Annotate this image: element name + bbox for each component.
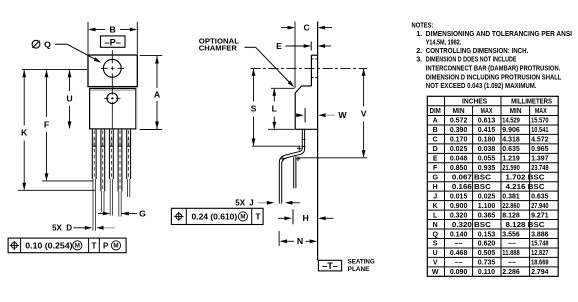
svg-text:––: –– bbox=[455, 241, 463, 248]
feature control frame 0.24 bbox=[171, 208, 263, 224]
dimension V bbox=[363, 69, 365, 107]
front view molded body bbox=[90, 89, 136, 129]
svg-text:M: M bbox=[113, 243, 118, 250]
svg-text:L: L bbox=[272, 103, 278, 113]
svg-text:Q: Q bbox=[44, 39, 51, 49]
svg-text:11.888: 11.888 bbox=[502, 250, 520, 257]
svg-text:0.635: 0.635 bbox=[531, 193, 549, 200]
datum P box bbox=[101, 36, 126, 47]
svg-text:MAX: MAX bbox=[481, 108, 493, 115]
svg-text:A: A bbox=[154, 90, 161, 100]
seating plane datum T bbox=[318, 260, 341, 271]
straight lead back row bbox=[293, 157, 295, 188]
svg-text:9.271: 9.271 bbox=[531, 212, 549, 219]
svg-text:0.468: 0.468 bbox=[450, 250, 468, 257]
svg-text:0.965: 0.965 bbox=[531, 146, 549, 153]
hidden hole lines in tab bbox=[311, 58, 317, 60]
svg-text:T: T bbox=[92, 241, 97, 250]
dimension K bbox=[23, 70, 25, 125]
svg-text:M: M bbox=[75, 243, 80, 250]
svg-text:C: C bbox=[303, 22, 310, 32]
extension line hole center bbox=[22, 69, 87, 71]
dimension N bbox=[278, 231, 280, 246]
svg-text:0.320 BSC: 0.320 BSC bbox=[452, 222, 491, 229]
lead 5 bbox=[126, 138, 131, 146]
dimension B bbox=[87, 22, 89, 54]
front view body tab bbox=[88, 55, 137, 87]
svg-text:0.067 BSC: 0.067 BSC bbox=[452, 174, 491, 181]
svg-text:0.572: 0.572 bbox=[450, 118, 468, 125]
svg-text:F: F bbox=[44, 119, 49, 129]
svg-text:K: K bbox=[433, 203, 438, 210]
svg-text:MAX: MAX bbox=[535, 108, 547, 115]
svg-text:0.735: 0.735 bbox=[478, 260, 496, 267]
svg-text:0.900: 0.900 bbox=[450, 203, 468, 210]
svg-text:B: B bbox=[109, 24, 115, 34]
svg-text:0.24 (0.610): 0.24 (0.610) bbox=[192, 213, 238, 222]
svg-text:0.025: 0.025 bbox=[450, 146, 468, 153]
svg-text:V: V bbox=[433, 260, 438, 267]
svg-text:K: K bbox=[21, 128, 28, 138]
svg-text:P: P bbox=[103, 241, 109, 250]
dimension C bbox=[294, 22, 296, 89]
svg-text:0.038: 0.038 bbox=[478, 146, 496, 153]
svg-text:E: E bbox=[433, 156, 438, 163]
dimension H bbox=[278, 217, 285, 219]
svg-text:M: M bbox=[240, 214, 245, 221]
svg-text:U: U bbox=[433, 250, 438, 257]
svg-text:3.556: 3.556 bbox=[502, 231, 520, 238]
feature control frame 0.10 bbox=[8, 238, 126, 253]
svg-text:23.749: 23.749 bbox=[531, 165, 549, 172]
svg-text:9.906: 9.906 bbox=[502, 127, 520, 134]
svg-text:0.110: 0.110 bbox=[478, 269, 495, 276]
svg-text:–P–: –P– bbox=[105, 37, 121, 47]
svg-text:0.613: 0.613 bbox=[478, 118, 496, 125]
svg-text:0.850: 0.850 bbox=[450, 165, 468, 172]
svg-text:L: L bbox=[433, 212, 438, 219]
svg-text:MIN: MIN bbox=[453, 108, 465, 115]
svg-text:T: T bbox=[256, 213, 261, 222]
hole diameter Q callout bbox=[32, 40, 40, 48]
svg-text:8.128: 8.128 bbox=[502, 212, 520, 219]
svg-text:0.025: 0.025 bbox=[478, 193, 496, 200]
dimension G bbox=[98, 213, 104, 215]
svg-text:H: H bbox=[433, 184, 438, 191]
svg-text:0.381: 0.381 bbox=[502, 193, 520, 200]
lead 4 bbox=[117, 138, 122, 146]
centerline dash-dot bbox=[251, 67, 368, 69]
svg-text:27.940: 27.940 bbox=[531, 203, 549, 210]
svg-text:MIN: MIN bbox=[510, 108, 522, 115]
svg-text:INCHES: INCHES bbox=[462, 99, 487, 106]
svg-text:3.: 3. bbox=[416, 55, 422, 64]
svg-text:22.860: 22.860 bbox=[502, 203, 520, 210]
svg-text:DIM: DIM bbox=[430, 108, 441, 115]
svg-text:E: E bbox=[276, 41, 282, 51]
svg-text:0.090: 0.090 bbox=[450, 269, 468, 276]
svg-text:18.669: 18.669 bbox=[531, 260, 549, 267]
dimension L bbox=[271, 87, 295, 89]
svg-text:5X: 5X bbox=[235, 199, 245, 208]
svg-text:H: H bbox=[303, 213, 309, 223]
lead 3 bbox=[109, 138, 114, 146]
svg-text:U: U bbox=[66, 93, 72, 103]
svg-text:2.794: 2.794 bbox=[531, 269, 549, 276]
svg-text:DIMENSION D INCLUDING PROTRUSI: DIMENSION D INCLUDING PROTRUSION SHALL bbox=[426, 72, 562, 81]
lead 2 bbox=[100, 138, 105, 146]
svg-text:0.390: 0.390 bbox=[450, 127, 468, 134]
svg-text:0.320: 0.320 bbox=[450, 212, 468, 219]
svg-text:D: D bbox=[433, 146, 438, 153]
svg-text:NOT EXCEED 0.043 (1.092) MAXIM: NOT EXCEED 0.043 (1.092) MAXIMUM. bbox=[426, 81, 537, 90]
svg-text:12.827: 12.827 bbox=[531, 250, 549, 257]
svg-text:F: F bbox=[433, 165, 438, 172]
svg-text:0.365: 0.365 bbox=[478, 212, 496, 219]
svg-text:––: –– bbox=[508, 241, 516, 248]
svg-text:1.397: 1.397 bbox=[531, 156, 549, 163]
svg-text:0.048: 0.048 bbox=[450, 156, 468, 163]
side view body outline bbox=[302, 85, 312, 87]
dimension A bbox=[140, 54, 163, 56]
bent lead front row bbox=[282, 146, 305, 204]
svg-text:Q: Q bbox=[432, 231, 438, 238]
svg-text:0.415: 0.415 bbox=[478, 127, 496, 134]
svg-text:4.318: 4.318 bbox=[502, 137, 520, 144]
svg-text:1.219: 1.219 bbox=[502, 156, 520, 163]
svg-text:0.10 (0.254): 0.10 (0.254) bbox=[25, 241, 73, 250]
svg-text:0.635: 0.635 bbox=[502, 146, 520, 153]
svg-text:OPTIONAL: OPTIONAL bbox=[199, 38, 240, 45]
dimension table bbox=[427, 96, 558, 276]
side view tab bbox=[310, 55, 312, 86]
svg-text:15.748: 15.748 bbox=[531, 241, 549, 248]
svg-text:1.: 1. bbox=[416, 29, 422, 38]
svg-text:4.572: 4.572 bbox=[531, 137, 549, 144]
dimension U bbox=[69, 70, 71, 91]
svg-text:3.886: 3.886 bbox=[531, 231, 549, 238]
svg-text:21.590: 21.590 bbox=[502, 165, 520, 172]
svg-text:S: S bbox=[433, 241, 438, 248]
svg-text:S: S bbox=[251, 104, 257, 114]
svg-text:V: V bbox=[361, 108, 367, 118]
tab/body separation line bbox=[88, 86, 137, 88]
svg-text:0.170: 0.170 bbox=[450, 137, 468, 144]
svg-text:0.055: 0.055 bbox=[478, 156, 496, 163]
svg-text:0.166 BSC: 0.166 BSC bbox=[452, 184, 491, 191]
svg-text:G: G bbox=[139, 208, 146, 218]
svg-text:W: W bbox=[432, 269, 439, 276]
svg-text:15.570: 15.570 bbox=[531, 118, 549, 125]
svg-text:14.529: 14.529 bbox=[502, 118, 520, 125]
svg-text:W: W bbox=[338, 110, 347, 120]
svg-text:0.140: 0.140 bbox=[450, 231, 468, 238]
svg-text:DIMENSION D DOES NOT INCLUDE: DIMENSION D DOES NOT INCLUDE bbox=[426, 55, 517, 64]
svg-text:––: –– bbox=[508, 260, 516, 267]
svg-text:–T–: –T– bbox=[322, 261, 338, 271]
svg-text:1.702 BSC: 1.702 BSC bbox=[506, 174, 545, 181]
svg-text:MILLIMETERS: MILLIMETERS bbox=[511, 99, 552, 106]
W tick inside body bbox=[304, 108, 306, 123]
svg-text:G: G bbox=[432, 174, 438, 181]
svg-text:0.180: 0.180 bbox=[478, 137, 496, 144]
dimension F bbox=[46, 70, 48, 117]
svg-text:10.541: 10.541 bbox=[531, 127, 549, 134]
svg-text:SEATING: SEATING bbox=[348, 260, 375, 266]
svg-text:CHAMFER: CHAMFER bbox=[199, 46, 237, 53]
svg-text:8.128 BSC: 8.128 BSC bbox=[506, 222, 545, 229]
svg-text:D: D bbox=[66, 223, 72, 232]
vertical centerline bbox=[111, 50, 113, 56]
svg-text:A: A bbox=[433, 118, 438, 125]
svg-text:0.620: 0.620 bbox=[478, 241, 496, 248]
svg-text:B: B bbox=[433, 127, 438, 134]
lower hole bbox=[107, 93, 118, 104]
svg-text:PLANE: PLANE bbox=[348, 267, 370, 273]
svg-text:N: N bbox=[433, 222, 438, 229]
svg-text:N: N bbox=[297, 236, 303, 246]
mounting hole bbox=[103, 59, 121, 77]
dimension S bbox=[253, 69, 255, 102]
svg-text:4.216 BSC: 4.216 BSC bbox=[506, 184, 545, 191]
dimension W bbox=[296, 114, 298, 116]
svg-text:J: J bbox=[249, 199, 253, 208]
lead stub below body bbox=[301, 129, 303, 147]
svg-text:C: C bbox=[433, 137, 438, 144]
svg-text:0.505: 0.505 bbox=[478, 250, 496, 257]
svg-text:INTERCONNECT BAR (DAMBAR) PROT: INTERCONNECT BAR (DAMBAR) PROTRUSION. bbox=[426, 63, 561, 72]
svg-text:1.100: 1.100 bbox=[478, 203, 496, 210]
svg-text:0.935: 0.935 bbox=[478, 165, 496, 172]
svg-text:––: –– bbox=[455, 260, 463, 267]
bend center marks bbox=[297, 147, 302, 149]
svg-text:J: J bbox=[433, 193, 437, 200]
svg-text:2.286: 2.286 bbox=[502, 269, 520, 276]
svg-text:0.153: 0.153 bbox=[478, 231, 496, 238]
svg-text:0.015: 0.015 bbox=[450, 193, 468, 200]
lead 1 bbox=[92, 138, 97, 146]
svg-text:5X: 5X bbox=[52, 223, 62, 232]
